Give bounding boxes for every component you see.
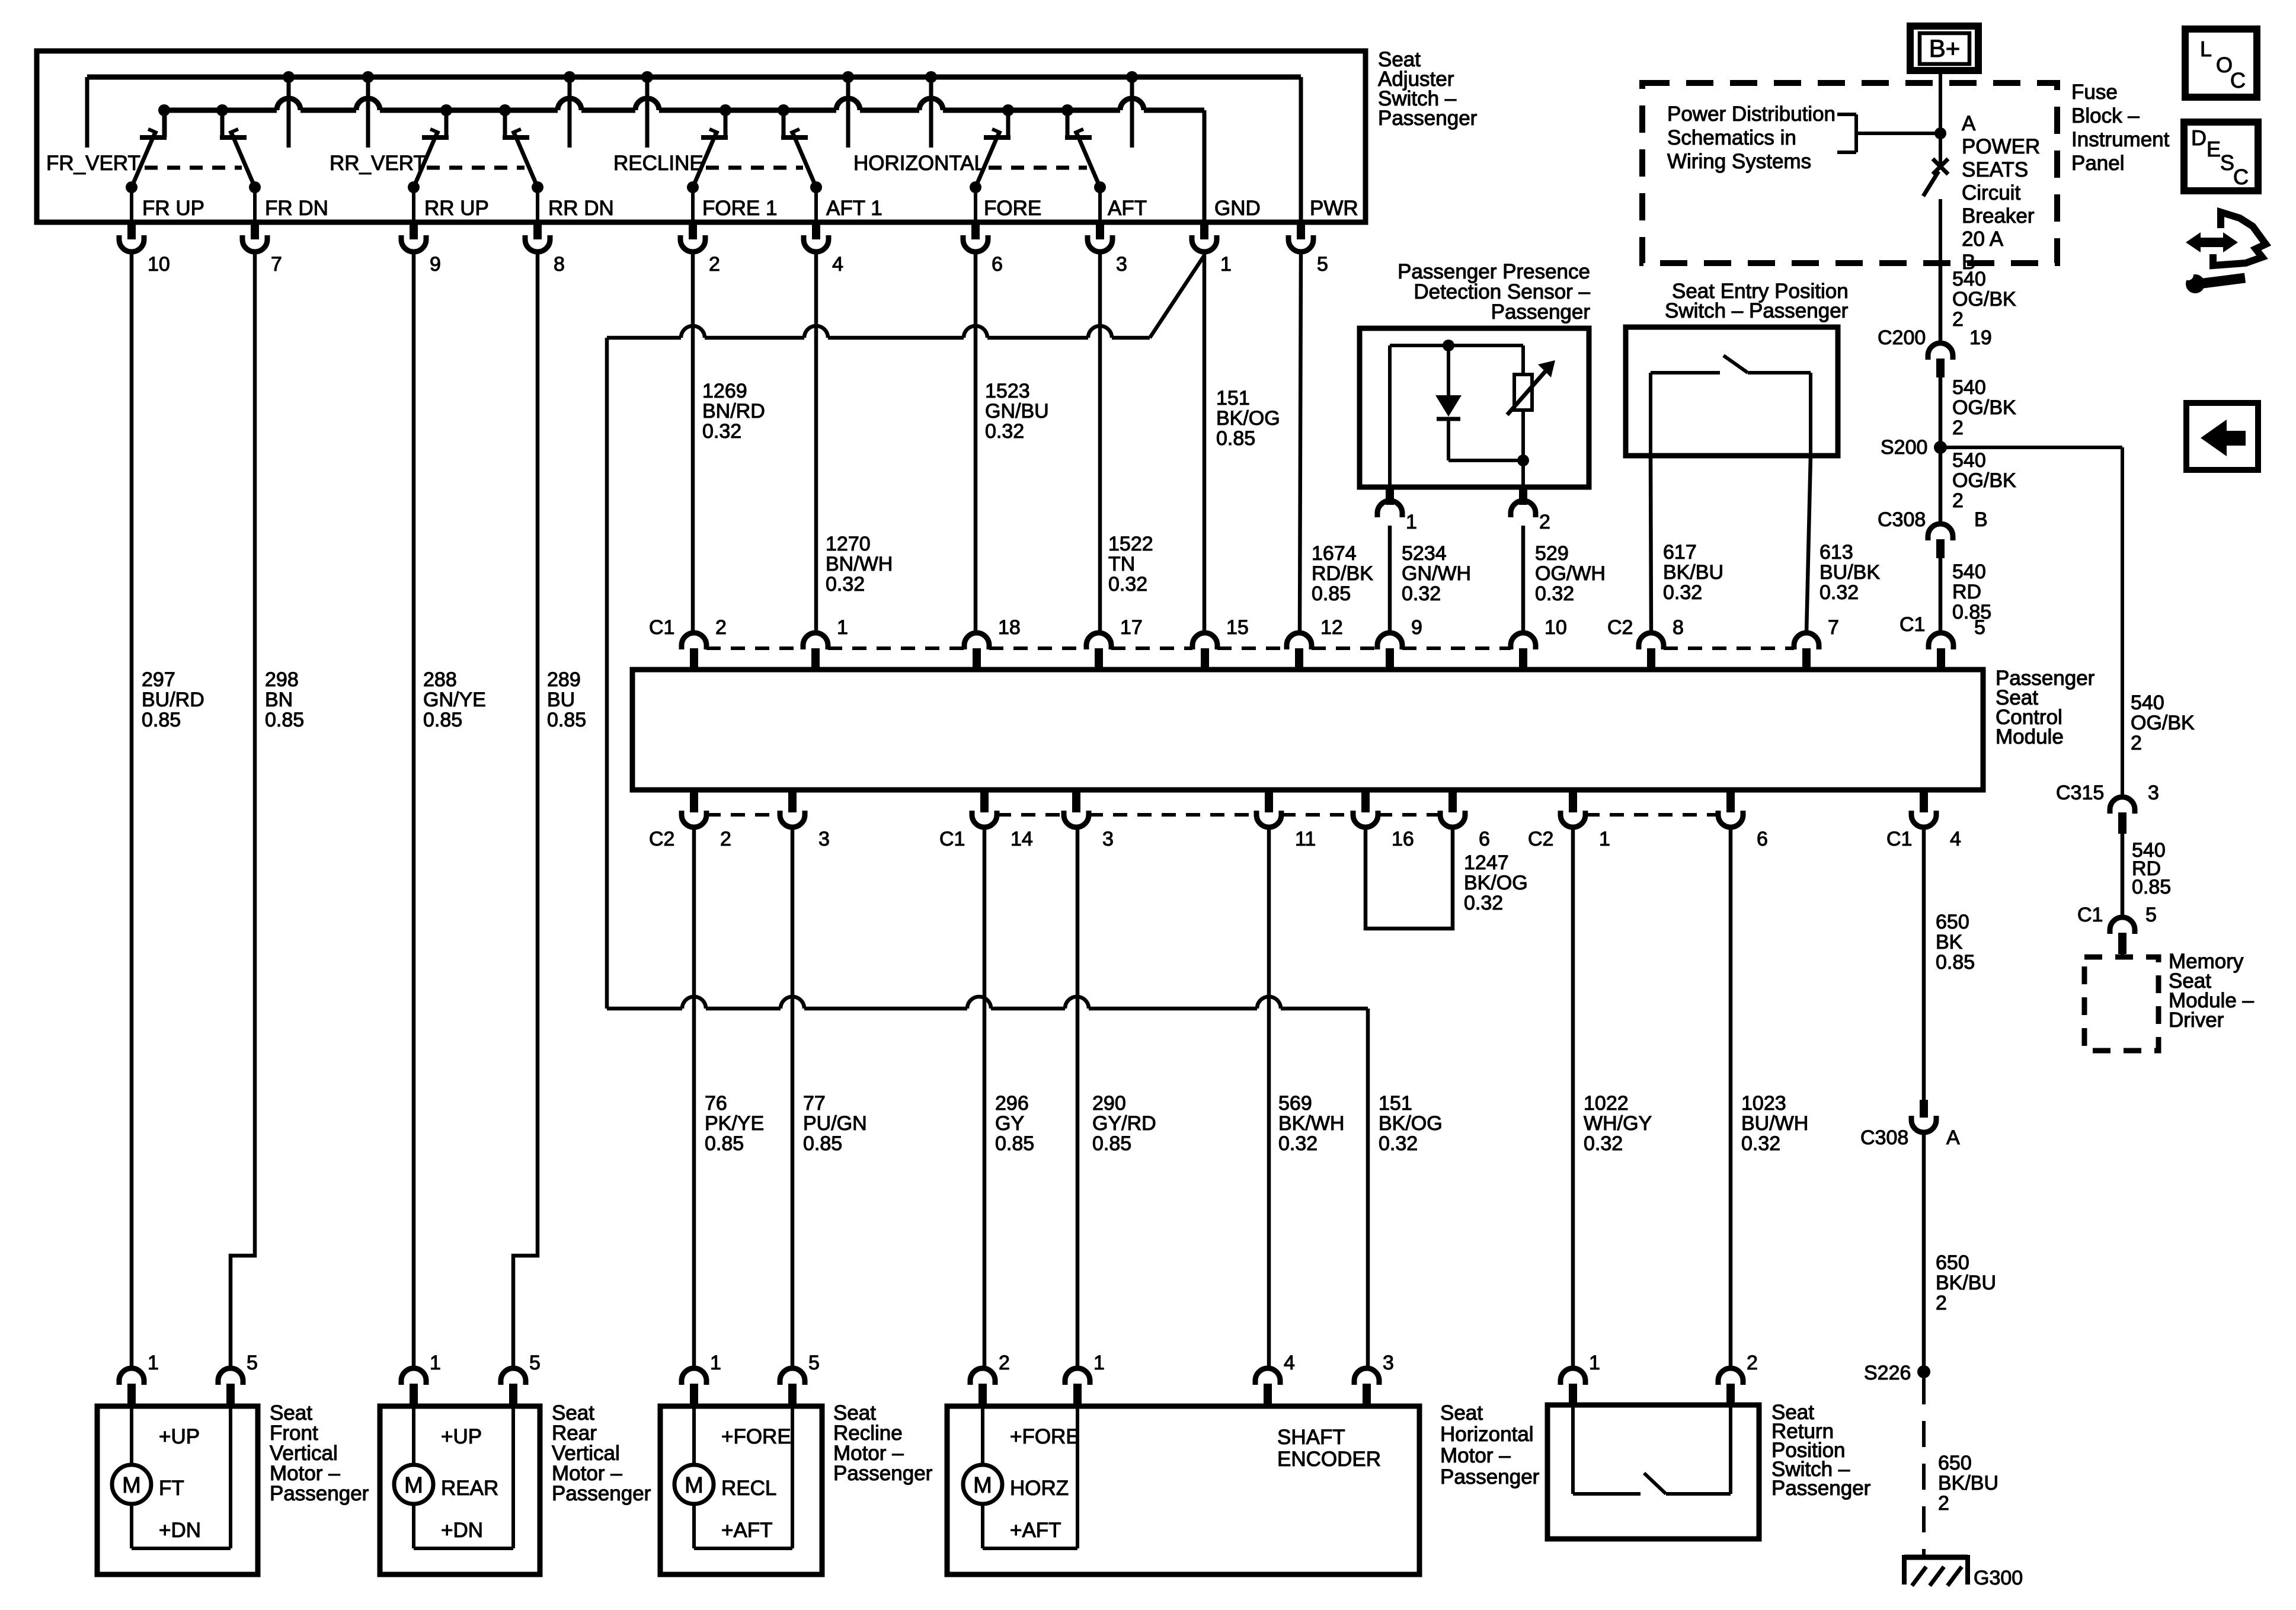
svg-text:C2: C2 <box>649 828 674 850</box>
svg-text:1: 1 <box>148 1352 159 1374</box>
svg-text:FR_VERT: FR_VERT <box>46 152 140 175</box>
svg-text:19: 19 <box>1969 327 1992 349</box>
svg-text:0.32: 0.32 <box>1584 1132 1623 1155</box>
svg-text:2: 2 <box>1539 511 1550 533</box>
svg-text:0.32: 0.32 <box>1535 582 1574 605</box>
svg-text:1: 1 <box>1589 1352 1600 1374</box>
svg-text:BK/WH: BK/WH <box>1278 1112 1344 1135</box>
svg-text:BK/OG: BK/OG <box>1216 407 1280 430</box>
svg-text:5: 5 <box>808 1352 820 1374</box>
svg-text:8: 8 <box>554 253 565 276</box>
svg-text:14: 14 <box>1011 828 1033 850</box>
svg-text:5: 5 <box>529 1352 541 1374</box>
svg-text:2: 2 <box>720 828 731 850</box>
svg-text:2: 2 <box>1936 1292 1947 1314</box>
svg-text:PK/YE: PK/YE <box>705 1112 764 1135</box>
svg-text:C315: C315 <box>2056 782 2104 804</box>
svg-text:1247: 1247 <box>1464 852 1509 874</box>
svg-text:+AFT: +AFT <box>1010 1519 1061 1542</box>
svg-text:Schematics in: Schematics in <box>1667 126 1796 149</box>
svg-text:540: 540 <box>1952 376 1986 399</box>
svg-text:E: E <box>2207 137 2221 161</box>
svg-text:FR UP: FR UP <box>142 197 204 220</box>
svg-text:6: 6 <box>1479 828 1490 850</box>
svg-text:C308: C308 <box>1860 1126 1908 1149</box>
svg-text:0.85: 0.85 <box>705 1132 744 1155</box>
svg-text:2: 2 <box>1952 489 1964 512</box>
svg-text:297: 297 <box>142 668 175 691</box>
svg-text:Horizontal: Horizontal <box>1440 1423 1534 1446</box>
svg-text:OG/BK: OG/BK <box>1952 396 2016 419</box>
svg-text:HORZ: HORZ <box>1010 1477 1069 1500</box>
svg-text:C308: C308 <box>1878 508 1926 531</box>
svg-text:288: 288 <box>423 668 457 691</box>
svg-text:2: 2 <box>1952 308 1964 331</box>
svg-text:+DN: +DN <box>441 1519 483 1542</box>
svg-text:Passenger: Passenger <box>270 1482 369 1505</box>
svg-text:1023: 1023 <box>1741 1092 1786 1115</box>
svg-text:M: M <box>404 1473 423 1498</box>
svg-text:M: M <box>685 1473 703 1498</box>
svg-text:B+: B+ <box>1929 34 1961 62</box>
svg-text:540: 540 <box>2131 692 2164 714</box>
svg-text:OG/BK: OG/BK <box>1952 469 2016 492</box>
svg-text:1523: 1523 <box>985 380 1030 402</box>
svg-text:Breaker: Breaker <box>1962 204 2035 228</box>
svg-text:2: 2 <box>1952 417 1964 439</box>
svg-text:77: 77 <box>803 1092 826 1115</box>
svg-text:151: 151 <box>1379 1092 1412 1115</box>
svg-text:0.85: 0.85 <box>265 709 304 731</box>
svg-text:613: 613 <box>1819 541 1853 564</box>
svg-text:Driver: Driver <box>2169 1009 2224 1032</box>
svg-text:GY: GY <box>995 1112 1024 1135</box>
svg-text:BN: BN <box>265 689 293 711</box>
svg-text:17: 17 <box>1120 616 1143 639</box>
svg-text:PU/GN: PU/GN <box>803 1112 867 1135</box>
svg-text:0.32: 0.32 <box>1819 581 1859 604</box>
svg-text:0.32: 0.32 <box>985 420 1024 443</box>
svg-text:BU: BU <box>547 689 575 711</box>
svg-text:12: 12 <box>1320 616 1343 639</box>
svg-text:1270: 1270 <box>826 533 871 555</box>
svg-text:+UP: +UP <box>159 1425 200 1448</box>
svg-text:569: 569 <box>1278 1092 1312 1115</box>
svg-text:6: 6 <box>1757 828 1768 850</box>
svg-text:M: M <box>973 1473 992 1498</box>
svg-text:5: 5 <box>2145 904 2157 926</box>
svg-text:C1: C1 <box>1900 613 1925 636</box>
svg-text:S: S <box>2220 151 2234 175</box>
svg-text:0.85: 0.85 <box>2132 876 2171 898</box>
svg-text:BK: BK <box>1936 931 1963 953</box>
svg-text:0.85: 0.85 <box>995 1132 1034 1155</box>
svg-text:L: L <box>2200 37 2212 61</box>
svg-text:BK/BU: BK/BU <box>1936 1272 1996 1294</box>
svg-text:0.85: 0.85 <box>1216 427 1255 450</box>
svg-text:C2: C2 <box>1528 828 1553 850</box>
svg-text:G300: G300 <box>1974 1567 2023 1589</box>
svg-text:OG/WH: OG/WH <box>1535 562 1606 585</box>
svg-text:289: 289 <box>547 668 581 691</box>
svg-text:BK/OG: BK/OG <box>1379 1112 1443 1135</box>
svg-text:0.85: 0.85 <box>1092 1132 1131 1155</box>
svg-text:GN/YE: GN/YE <box>423 689 486 711</box>
svg-text:2: 2 <box>1747 1352 1758 1374</box>
svg-text:0.85: 0.85 <box>1936 951 1975 974</box>
svg-text:BU/BK: BU/BK <box>1819 561 1880 584</box>
svg-text:RD/BK: RD/BK <box>1312 562 1373 585</box>
svg-text:0.32: 0.32 <box>702 420 741 443</box>
svg-text:10: 10 <box>1544 616 1567 639</box>
svg-text:0.32: 0.32 <box>1464 892 1503 914</box>
svg-text:2: 2 <box>709 253 720 276</box>
svg-text:Panel: Panel <box>2071 152 2125 175</box>
svg-text:C: C <box>2230 68 2246 92</box>
svg-text:AFT: AFT <box>1108 197 1147 220</box>
svg-text:650: 650 <box>1936 911 1969 933</box>
svg-text:A: A <box>1962 112 1976 135</box>
svg-text:1: 1 <box>1406 511 1417 533</box>
svg-text:SEATS: SEATS <box>1962 158 2028 181</box>
svg-text:8: 8 <box>1673 616 1684 639</box>
svg-text:C2: C2 <box>1607 616 1633 639</box>
svg-text:3: 3 <box>1383 1352 1394 1374</box>
svg-text:+DN: +DN <box>159 1519 201 1542</box>
svg-text:3: 3 <box>1102 828 1114 850</box>
svg-text:GY/RD: GY/RD <box>1092 1112 1156 1135</box>
svg-text:2: 2 <box>715 616 727 639</box>
svg-text:Power Distribution: Power Distribution <box>1667 103 1835 126</box>
svg-text:0.85: 0.85 <box>423 709 462 731</box>
svg-text:C: C <box>2233 165 2249 189</box>
svg-text:1: 1 <box>1093 1352 1105 1374</box>
svg-text:BK/BU: BK/BU <box>1938 1472 1998 1494</box>
svg-text:AFT 1: AFT 1 <box>826 197 882 220</box>
svg-text:BU/WH: BU/WH <box>1741 1112 1808 1135</box>
svg-text:0.85: 0.85 <box>1312 582 1351 605</box>
svg-text:BN/WH: BN/WH <box>826 553 893 575</box>
svg-text:529: 529 <box>1535 542 1569 565</box>
svg-text:290: 290 <box>1092 1092 1126 1115</box>
svg-text:S200: S200 <box>1881 436 1927 459</box>
svg-text:Switch – Passenger: Switch – Passenger <box>1665 299 1849 322</box>
svg-text:650: 650 <box>1938 1452 1972 1474</box>
svg-text:5: 5 <box>247 1352 258 1374</box>
svg-text:RECL: RECL <box>721 1477 776 1500</box>
svg-text:FORE 1: FORE 1 <box>702 197 777 220</box>
svg-text:SHAFT: SHAFT <box>1277 1426 1345 1449</box>
svg-text:2: 2 <box>2131 732 2142 754</box>
svg-text:4: 4 <box>1950 828 1961 850</box>
svg-text:10: 10 <box>148 253 170 276</box>
svg-text:0.32: 0.32 <box>1402 582 1441 605</box>
svg-text:FR DN: FR DN <box>265 197 328 220</box>
svg-text:Seat: Seat <box>1440 1401 1483 1425</box>
svg-text:9: 9 <box>1411 616 1422 639</box>
svg-text:BU/RD: BU/RD <box>142 689 204 711</box>
svg-text:M: M <box>122 1473 141 1498</box>
svg-text:FORE: FORE <box>984 197 1041 220</box>
svg-text:7: 7 <box>1828 616 1839 639</box>
svg-text:2: 2 <box>999 1352 1010 1374</box>
svg-text:7: 7 <box>271 253 282 276</box>
svg-text:Passenger: Passenger <box>1771 1477 1871 1500</box>
svg-text:S226: S226 <box>1864 1362 1911 1384</box>
svg-text:18: 18 <box>998 616 1021 639</box>
svg-text:C1: C1 <box>649 616 674 639</box>
svg-text:11: 11 <box>1295 828 1316 850</box>
svg-text:540: 540 <box>1952 449 1986 472</box>
svg-text:1: 1 <box>710 1352 721 1374</box>
svg-text:4: 4 <box>1284 1352 1295 1374</box>
svg-text:C200: C200 <box>1878 327 1926 349</box>
svg-text:1: 1 <box>1599 828 1610 850</box>
svg-text:540: 540 <box>1952 268 1986 290</box>
svg-text:0.85: 0.85 <box>1952 601 1991 623</box>
svg-text:617: 617 <box>1663 541 1697 564</box>
svg-text:5: 5 <box>1317 253 1328 276</box>
svg-text:+UP: +UP <box>441 1425 482 1448</box>
svg-text:RECLINE: RECLINE <box>613 152 703 175</box>
svg-text:C1: C1 <box>939 828 965 850</box>
svg-text:1: 1 <box>837 616 848 639</box>
svg-text:1: 1 <box>1220 253 1232 276</box>
svg-text:4: 4 <box>832 253 843 276</box>
svg-text:+AFT: +AFT <box>721 1519 773 1542</box>
svg-text:3: 3 <box>818 828 830 850</box>
svg-text:Wiring Systems: Wiring Systems <box>1667 150 1811 173</box>
svg-text:B: B <box>1974 508 1988 531</box>
svg-text:0.85: 0.85 <box>142 709 181 731</box>
svg-text:RD: RD <box>1952 581 1981 603</box>
svg-text:1674: 1674 <box>1312 542 1357 565</box>
svg-text:Module: Module <box>1996 725 2064 748</box>
svg-text:298: 298 <box>265 668 299 691</box>
svg-text:20 A: 20 A <box>1962 228 2004 251</box>
svg-text:1: 1 <box>430 1352 441 1374</box>
svg-text:76: 76 <box>705 1092 727 1115</box>
svg-text:Passenger: Passenger <box>833 1462 933 1485</box>
svg-text:REAR: REAR <box>441 1477 498 1500</box>
svg-text:15: 15 <box>1226 616 1249 639</box>
svg-text:Passenger: Passenger <box>552 1482 651 1505</box>
svg-text:6: 6 <box>992 253 1003 276</box>
svg-text:1522: 1522 <box>1108 533 1153 555</box>
svg-text:TN: TN <box>1108 553 1135 575</box>
svg-text:D: D <box>2191 126 2207 150</box>
svg-text:+FORE: +FORE <box>1010 1425 1080 1448</box>
svg-text:Motor –: Motor – <box>1440 1444 1511 1467</box>
svg-text:1022: 1022 <box>1584 1092 1629 1115</box>
svg-text:OG/BK: OG/BK <box>1952 288 2016 311</box>
svg-text:0.32: 0.32 <box>826 573 865 596</box>
svg-text:5234: 5234 <box>1402 542 1447 565</box>
svg-text:BK/OG: BK/OG <box>1464 872 1528 894</box>
svg-text:C1: C1 <box>1886 828 1912 850</box>
svg-text:RR_VERT: RR_VERT <box>330 152 426 175</box>
svg-text:GN/WH: GN/WH <box>1402 562 1471 585</box>
svg-text:0.85: 0.85 <box>547 709 586 731</box>
svg-text:C1: C1 <box>2077 904 2103 926</box>
svg-text:0.85: 0.85 <box>803 1132 842 1155</box>
svg-text:Passenger: Passenger <box>1378 107 1478 130</box>
svg-text:3: 3 <box>1116 253 1127 276</box>
svg-text:650: 650 <box>1936 1251 1969 1274</box>
svg-text:Instrument: Instrument <box>2071 128 2170 151</box>
svg-text:GN/BU: GN/BU <box>985 400 1049 422</box>
svg-text:3: 3 <box>2148 782 2159 804</box>
svg-text:2: 2 <box>1938 1492 1949 1515</box>
svg-text:16: 16 <box>1392 828 1414 850</box>
svg-text:RR UP: RR UP <box>424 197 489 220</box>
svg-text:BK/BU: BK/BU <box>1663 561 1723 584</box>
svg-text:0.32: 0.32 <box>1741 1132 1780 1155</box>
svg-text:HORIZONTAL: HORIZONTAL <box>853 152 986 175</box>
svg-text:BN/RD: BN/RD <box>702 400 765 422</box>
svg-text:1269: 1269 <box>702 380 747 402</box>
svg-text:RR DN: RR DN <box>548 197 614 220</box>
svg-text:0.32: 0.32 <box>1663 581 1702 604</box>
svg-text:FT: FT <box>159 1477 184 1500</box>
svg-text:9: 9 <box>430 253 441 276</box>
svg-text:GND: GND <box>1214 197 1261 220</box>
svg-text:OG/BK: OG/BK <box>2131 712 2195 734</box>
svg-text:151: 151 <box>1216 387 1250 409</box>
svg-text:Circuit: Circuit <box>1962 181 2020 204</box>
svg-text:Passenger: Passenger <box>1491 300 1591 324</box>
svg-text:Fuse: Fuse <box>2071 81 2118 104</box>
svg-text:POWER: POWER <box>1962 135 2040 158</box>
svg-text:ENCODER: ENCODER <box>1277 1448 1381 1471</box>
svg-text:540: 540 <box>1952 561 1986 583</box>
svg-text:296: 296 <box>995 1092 1029 1115</box>
svg-text:Block –: Block – <box>2071 104 2140 127</box>
svg-text:0.32: 0.32 <box>1278 1132 1318 1155</box>
svg-text:A: A <box>1946 1126 1960 1149</box>
svg-text:0.32: 0.32 <box>1379 1132 1418 1155</box>
svg-text:+FORE: +FORE <box>721 1425 791 1448</box>
svg-text:WH/GY: WH/GY <box>1584 1112 1652 1135</box>
svg-text:PWR: PWR <box>1310 197 1358 220</box>
svg-text:Passenger: Passenger <box>1440 1465 1540 1489</box>
svg-text:0.32: 0.32 <box>1108 573 1147 596</box>
